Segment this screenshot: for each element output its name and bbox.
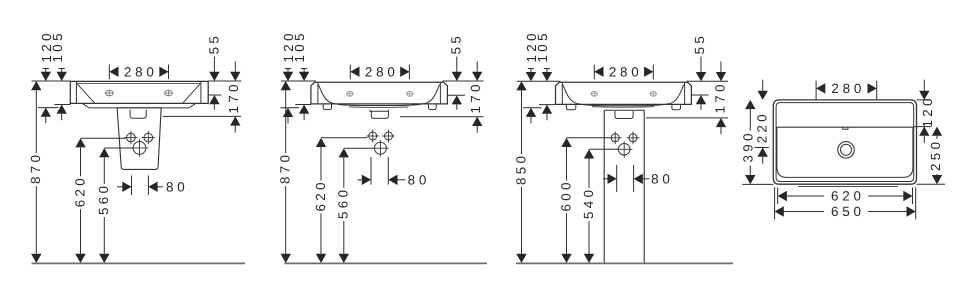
svg-text:220: 220 xyxy=(755,111,770,143)
svg-text:650: 650 xyxy=(831,204,865,219)
svg-text:105: 105 xyxy=(535,30,550,62)
svg-text:55: 55 xyxy=(449,33,464,55)
svg-text:600: 600 xyxy=(558,179,573,211)
svg-text:280: 280 xyxy=(124,65,158,80)
svg-text:80: 80 xyxy=(651,172,674,187)
svg-text:80: 80 xyxy=(408,173,431,188)
svg-text:105: 105 xyxy=(50,30,65,62)
svg-text:560: 560 xyxy=(96,183,111,215)
svg-text:620: 620 xyxy=(831,189,865,204)
svg-text:560: 560 xyxy=(336,187,351,219)
svg-text:280: 280 xyxy=(831,81,865,96)
svg-text:620: 620 xyxy=(313,179,328,211)
svg-text:250: 250 xyxy=(928,139,943,171)
svg-text:540: 540 xyxy=(581,187,596,219)
svg-text:120: 120 xyxy=(920,95,935,127)
svg-text:170: 170 xyxy=(468,81,483,113)
svg-text:390: 390 xyxy=(741,130,756,162)
svg-text:620: 620 xyxy=(72,175,87,207)
svg-text:850: 850 xyxy=(513,153,528,185)
svg-text:870: 870 xyxy=(28,152,43,184)
svg-text:870: 870 xyxy=(278,152,293,184)
svg-text:55: 55 xyxy=(692,33,707,55)
svg-text:55: 55 xyxy=(206,33,221,55)
svg-text:105: 105 xyxy=(292,30,307,62)
svg-text:80: 80 xyxy=(166,180,189,195)
svg-text:280: 280 xyxy=(365,65,399,80)
svg-text:170: 170 xyxy=(712,81,727,113)
svg-text:280: 280 xyxy=(609,65,643,80)
svg-text:170: 170 xyxy=(226,81,241,113)
